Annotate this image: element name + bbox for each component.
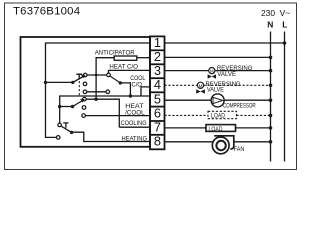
wire S1 lower contact stub [87, 91, 106, 93]
svg-text:6: 6 [154, 106, 161, 121]
wire row7 left [165, 127, 207, 129]
supply line N [270, 32, 272, 162]
svg-text:7: 7 [154, 120, 161, 135]
svg-text:C/O: C/O [132, 82, 143, 89]
switch S3 arm [61, 126, 72, 132]
wire row5 right [224, 99, 270, 101]
wire to terminal 5 [60, 96, 150, 123]
svg-text:LOAD: LOAD [209, 126, 223, 133]
junction temp switch pivot [119, 81, 122, 84]
svg-text:1: 1 [154, 35, 161, 50]
svg-text:5: 5 [154, 91, 161, 106]
junction row2 on N [269, 56, 273, 60]
switch S2 arm [73, 100, 84, 107]
wire temp switch C/O elbow [120, 83, 130, 96]
compressor [211, 94, 224, 107]
wire row5 left [165, 99, 212, 101]
svg-text:COMPRESSOR: COMPRESSOR [223, 102, 256, 109]
wire S2 pole feed [60, 106, 73, 108]
svg-text:HEAT C/O: HEAT C/O [109, 63, 138, 70]
junction row4 on N [269, 84, 273, 88]
wire row3 right [215, 70, 271, 72]
reversing valve 2 motor [196, 82, 205, 94]
reversing valve 1 motor [208, 68, 216, 79]
wire S2 top contact run [86, 99, 119, 127]
svg-text:M: M [199, 83, 203, 88]
svg-text:3: 3 [154, 63, 161, 78]
contact S3 lower [56, 136, 60, 140]
wire anticipator to terminal 2 [137, 57, 151, 59]
wire row7 right [236, 127, 271, 129]
anticipator resistor [114, 56, 137, 60]
load box dashed [208, 111, 237, 118]
arrowhead S2 arm [80, 99, 85, 103]
svg-text:T6376B1004: T6376B1004 [13, 6, 80, 18]
wire row1 to L [165, 42, 285, 44]
svg-text:HEATING: HEATING [122, 136, 148, 143]
svg-text:230 V~: 230 V~ [261, 8, 290, 18]
wire S1 pole feed [46, 81, 73, 83]
junction row7 on N [269, 126, 273, 130]
svg-text:2: 2 [154, 49, 161, 64]
junction row3 on N [269, 69, 273, 73]
contact S3 pole [58, 123, 62, 127]
wire S3 output to terminal 8 [72, 132, 150, 141]
wire cooling contact to terminal 6 [85, 115, 150, 117]
wire to terminal 7 [119, 126, 150, 128]
contact S2 bottom [82, 114, 86, 118]
switch S1 arm [73, 76, 84, 82]
wire heat c/o to terminal 3 [109, 70, 151, 73]
supply line L [284, 32, 286, 162]
svg-text:COOLING: COOLING [121, 120, 147, 127]
svg-text:ANTICIPATOR: ANTICIPATOR [95, 50, 136, 57]
contact circles [56, 73, 110, 139]
contact S2 top [83, 97, 87, 101]
svg-text:FAN: FAN [234, 146, 245, 153]
arrowhead S1 arm [81, 75, 86, 79]
junction S1 pivot [71, 81, 74, 84]
svg-text:8: 8 [154, 134, 161, 149]
switch S3 handle [63, 123, 68, 128]
svg-text:VALVE: VALVE [217, 71, 236, 78]
contact S2 mid [82, 106, 86, 110]
svg-text:/COOL: /COOL [125, 109, 145, 116]
junction row1 on L [283, 41, 287, 45]
wire row2 to N [165, 56, 271, 58]
fan blower [212, 136, 234, 154]
svg-text:VALVE: VALVE [207, 86, 224, 93]
wire row3 left [165, 70, 209, 72]
temp switch arm [110, 76, 120, 83]
svg-text:LOAD: LOAD [211, 113, 225, 120]
thermostat case box [21, 37, 151, 147]
wire row4 dashed left [165, 84, 198, 86]
junction row5 on N [269, 98, 273, 102]
mechanical link dashed S1-S2 [78, 81, 80, 96]
contact temp switch lower [106, 90, 110, 94]
wire rail left vertical to terminal 1 [46, 43, 151, 137]
wire row4 dashed right [204, 84, 271, 86]
svg-text:M: M [210, 69, 214, 74]
junction S2 pole feed [58, 105, 61, 108]
terminal block outline [150, 36, 165, 149]
wire row6 dashed left [165, 114, 209, 116]
wire cool c/o step to terminal 4 [141, 87, 150, 96]
junction rail / S1 pole feed [44, 81, 47, 84]
junction row6 on N [269, 114, 273, 118]
junction row8 on N [269, 140, 273, 144]
wire row8 right [234, 141, 271, 143]
junction anticipator drop end [94, 98, 97, 101]
wire row6 dashed right [237, 114, 271, 116]
junction c/o drop on terminal5 wire [129, 94, 132, 97]
svg-text:N: N [267, 20, 273, 30]
load box solid [206, 125, 236, 132]
wire anticipator feed + vertical drop [96, 58, 114, 99]
outer border frame [5, 3, 297, 170]
contact S1 bottom [83, 90, 87, 94]
wire row8 left [165, 141, 213, 143]
wire S1 top contact to temp switch [87, 74, 107, 76]
contact temp switch [107, 73, 111, 77]
junction anticipator drop / heat c/o wire [95, 74, 98, 77]
contact S1 top [83, 73, 87, 77]
svg-text:L: L [282, 20, 287, 30]
contact S1 mid [83, 82, 87, 86]
switch S1 handle [76, 74, 82, 79]
junction S2 pivot [71, 105, 74, 108]
terminal numbers 1-8 [154, 35, 161, 148]
junction S3 pivot [70, 131, 73, 134]
svg-text:4: 4 [154, 77, 161, 92]
